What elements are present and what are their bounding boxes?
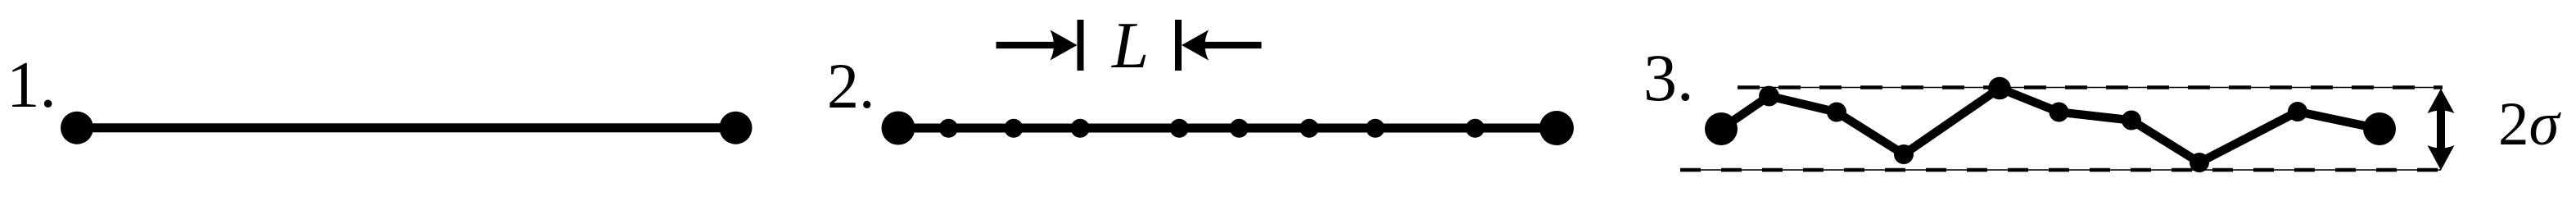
sigma arrow top head xyxy=(2428,89,2455,113)
svg-text:1.: 1. xyxy=(7,48,56,121)
svg-text:L: L xyxy=(1111,8,1149,82)
dimension L right arrow shaft xyxy=(1203,42,1262,48)
rod 2 bead 6 xyxy=(1299,119,1318,138)
dimension L left tick bar xyxy=(1078,20,1084,71)
rod 2 bead 8 xyxy=(1466,119,1485,138)
chain 3 vertex dot 5 xyxy=(2050,103,2069,122)
chain 3 vertex dot 6 xyxy=(2122,111,2141,131)
lower sigma bound thin line xyxy=(1680,169,2441,171)
sigma arrow shaft xyxy=(2437,107,2445,151)
rod 1 left end dot xyxy=(61,112,93,144)
sigma arrow bottom head xyxy=(2428,145,2455,171)
upper sigma bound dashed line xyxy=(1738,85,2443,89)
dimension L left arrow shaft xyxy=(997,42,1057,48)
svg-text:3.: 3. xyxy=(1643,40,1694,115)
rod 2 bead 5 xyxy=(1230,119,1249,138)
chain 3 vertex dot 3 xyxy=(1894,144,1914,164)
rod 2 bead 7 xyxy=(1366,119,1385,138)
chain 3 vertex dot 8 xyxy=(2288,102,2307,121)
rod 2 bead 1 xyxy=(939,119,958,138)
lower sigma bound dashed line xyxy=(1680,168,2441,172)
chain 3 vertex dot 7 xyxy=(2190,153,2209,172)
rod 2 left end dot xyxy=(882,112,915,145)
rod 1 right end dot xyxy=(720,112,752,144)
dimension L right arrowhead xyxy=(1182,30,1209,61)
rod 2 bead 3 xyxy=(1071,119,1090,138)
chain 3 right end dot xyxy=(2363,112,2396,145)
chain 3 vertex dot 4 xyxy=(1988,77,2011,100)
dimension L left arrowhead xyxy=(1051,30,1078,61)
chain 3 vertex dot 1 xyxy=(1759,86,1779,107)
rod 2 line xyxy=(898,124,1557,133)
svg-text:2.: 2. xyxy=(827,50,875,121)
upper sigma bound thin line xyxy=(1738,87,2443,89)
dimension L right tick bar xyxy=(1175,20,1182,71)
svg-text:2σ: 2σ xyxy=(2498,90,2562,158)
chain 3 left end dot xyxy=(1705,112,1738,145)
rod 2 bead 4 xyxy=(1170,119,1189,138)
rod 1 line xyxy=(77,123,736,132)
chain 3 polyline xyxy=(1721,89,2379,163)
chain 3 vertex dot 2 xyxy=(1827,103,1846,122)
rod 2 bead 2 xyxy=(1004,119,1023,138)
rod 2 right end dot xyxy=(1539,111,1574,145)
